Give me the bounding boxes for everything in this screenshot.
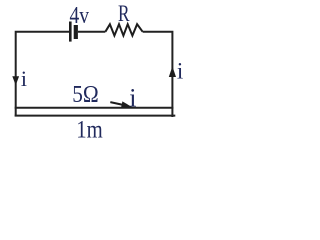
svg-text:i: i: [21, 66, 27, 91]
battery cell 4v: long thin plate: [69, 22, 72, 42]
current arrowhead on slide wire (right): [121, 101, 132, 108]
slide wire top line (5 ohm wire): [15, 107, 174, 109]
wire top-left segment and left vertical wire: [16, 32, 69, 117]
wire resistor to top-right corner and right vertical wire: [143, 32, 173, 117]
resistor R zigzag: [105, 24, 142, 35]
svg-text:i: i: [177, 59, 183, 84]
svg-text:i: i: [129, 83, 136, 112]
wire battery to resistor: [78, 31, 106, 33]
svg-text:4v: 4v: [70, 2, 90, 29]
slide wire bottom line: [15, 115, 176, 117]
svg-text:5Ω: 5Ω: [72, 81, 99, 108]
current arrow shaft on slide wire: [110, 102, 123, 105]
current arrowhead on left wire (down): [12, 76, 19, 85]
current arrowhead on right wire (up): [169, 66, 176, 77]
svg-text:R: R: [118, 1, 130, 26]
svg-text:1m: 1m: [76, 114, 103, 143]
battery cell 4v: short thick plate: [74, 25, 78, 39]
